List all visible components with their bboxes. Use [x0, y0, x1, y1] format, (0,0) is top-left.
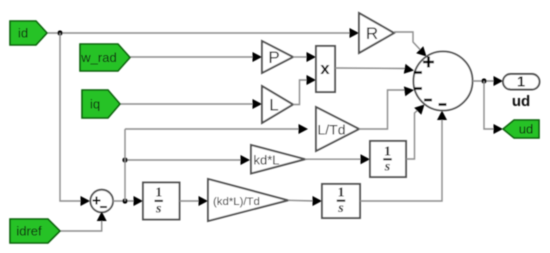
svg-text:ud: ud	[519, 122, 533, 137]
arrow into sum2 minus 1	[404, 64, 415, 75]
wire sum2 to outport	[473, 80, 497, 82]
svg-text:ud: ud	[512, 93, 530, 110]
arrow into gain P	[253, 52, 263, 62]
wire line for L/Td input from branch	[125, 128, 301, 130]
sum1 plus sign	[93, 197, 101, 205]
wire gain R to sum2	[394, 32, 420, 50]
node junction on id wire	[57, 30, 62, 35]
sum2 circle	[414, 52, 473, 111]
gain L/Td	[316, 107, 359, 151]
node junction after sum2	[481, 78, 486, 83]
wire sum1 to integrator A	[113, 200, 136, 202]
arrow into gain R	[350, 28, 360, 38]
wire L/Td to sum2	[359, 90, 406, 129]
svg-text:x: x	[320, 59, 330, 78]
gain P	[262, 41, 293, 73]
sum2 minus sign 3	[424, 99, 432, 102]
arrow into sum2 minus 4 (bottom)	[437, 111, 447, 121]
product block	[316, 46, 335, 92]
arrow into integrator A	[134, 196, 144, 206]
wire (kd*L)/Td to integrator C	[288, 199, 315, 202]
inport tag id	[10, 21, 47, 45]
svg-text:P: P	[268, 48, 279, 67]
svg-text:s: s	[384, 160, 391, 175]
arrow into gain (kd*L)/Td	[199, 196, 209, 206]
wire integrator C to sum2 bottom	[360, 116, 442, 201]
arrow into outport 1	[494, 76, 504, 86]
wire id branch down to sum1	[60, 33, 82, 201]
svg-text:L/Td: L/Td	[317, 122, 345, 138]
wire gain L to product	[293, 80, 309, 105]
gain L	[262, 86, 293, 123]
arrow into gain L/Td	[299, 124, 309, 134]
wire iq to gain L	[120, 103, 255, 105]
svg-text:w_rad: w_rad	[80, 50, 116, 65]
arrow into sum2 minus 3 (diagonal up)	[414, 105, 424, 115]
svg-text:1: 1	[384, 144, 391, 159]
arrow into gain kd*L	[241, 155, 251, 165]
svg-text:1: 1	[517, 75, 525, 91]
inport tag w_rad	[80, 44, 130, 71]
node junction after sum1	[122, 198, 127, 203]
arrow into product input 2	[307, 75, 317, 85]
sum2 plus sign	[423, 57, 434, 68]
gain (kd*L)/Td	[208, 179, 288, 221]
outport 1	[503, 74, 540, 110]
arrow into gain L	[253, 99, 263, 109]
svg-text:idref: idref	[16, 224, 42, 239]
wire branch to kd*L	[125, 159, 243, 161]
wire branch up from sum1 output	[124, 129, 126, 201]
inport tag idref	[10, 219, 60, 243]
wire gain P to product	[293, 56, 309, 58]
svg-text:kd*L: kd*L	[254, 153, 280, 168]
wire integrator B to sum2	[406, 110, 418, 159]
integrator B 1/s	[370, 141, 406, 177]
svg-text:id: id	[18, 26, 28, 41]
wire product to sum2	[335, 67, 405, 70]
wire idref to sum1	[60, 218, 102, 231]
svg-text:iq: iq	[90, 97, 100, 112]
svg-text:L: L	[269, 96, 278, 115]
svg-text:s: s	[155, 201, 162, 216]
integrator A 1/s	[143, 183, 180, 220]
arrow into integrator C	[313, 196, 323, 206]
svg-text:s: s	[337, 201, 344, 216]
svg-text:1: 1	[155, 186, 162, 201]
wire integrator A to gain (kd*L)/Td	[180, 200, 202, 202]
sum1 circle	[90, 190, 113, 213]
svg-text:R: R	[366, 24, 378, 43]
arrow into integrator B	[361, 154, 371, 164]
wire kd*L to integrator B	[305, 158, 362, 160]
node junction at branch kd*L	[122, 157, 127, 162]
arrow into sum1 left	[81, 196, 91, 206]
arrow into goto tag ud	[494, 124, 504, 134]
svg-text:(kd*L)/Td: (kd*L)/Td	[213, 196, 260, 208]
gain R	[359, 13, 394, 53]
arrow into sum2 plus (diagonal)	[416, 46, 426, 56]
wire sum2 branch to goto tag ud	[484, 81, 495, 129]
gain kd*L	[251, 145, 305, 174]
integrator C 1/s	[322, 184, 360, 218]
sum2 minus sign 4	[439, 103, 447, 106]
inport tag iq	[82, 90, 120, 118]
sum2 minus sign 2	[414, 87, 422, 90]
arrow into product input 1	[307, 52, 317, 62]
arrow into sum2 minus 2	[404, 85, 415, 96]
wire w_rad to gain P	[130, 56, 255, 58]
wire id tag to gain R	[47, 32, 352, 34]
sum2 minus sign 1	[414, 71, 422, 74]
goto tag ud	[503, 120, 539, 138]
sum1 minus sign	[100, 206, 107, 208]
svg-text:1: 1	[338, 186, 345, 201]
arrow into sum1 bottom	[97, 212, 107, 222]
